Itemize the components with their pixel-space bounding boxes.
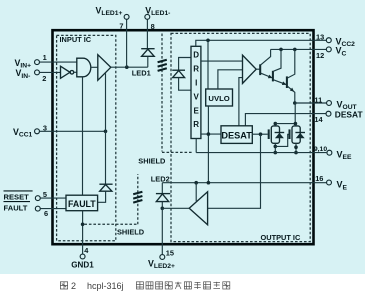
- svg-text:SHIELD: SHIELD: [117, 228, 145, 237]
- node junction VOUT: [293, 101, 297, 105]
- wire VC rail: [271, 48, 327, 50]
- svg-text:RESET: RESET: [4, 193, 30, 202]
- pin 14 terminal DESAT: [326, 111, 331, 116]
- wire VOUT to pin11: [295, 102, 327, 104]
- svg-text:E: E: [194, 106, 200, 115]
- FAULT block: [66, 195, 98, 211]
- svg-text:INPUT IC: INPUT IC: [60, 35, 92, 44]
- buffer U1C: [98, 55, 111, 81]
- wire DRIVER bottom stub to VEE rail: [195, 139, 197, 153]
- wire M1 source lead: [274, 143, 276, 152]
- wire pin2 to inverter: [40, 71, 61, 73]
- shield hatch upper: [158, 60, 167, 71]
- wire DESAT pin rail: [245, 114, 326, 126]
- node junction shield-gnd: [81, 223, 85, 227]
- wire DESAT top stub to amp1: [239, 78, 243, 126]
- shield dashed line lower: [84, 223, 137, 225]
- svg-text:13: 13: [316, 32, 324, 41]
- wire M2 drain lead: [295, 124, 297, 126]
- photodiode PD1: [179, 58, 191, 71]
- wire pin7 down: [126, 20, 128, 68]
- wire VEE rail to pin 9,10: [196, 152, 326, 154]
- UVLO block: [206, 89, 233, 106]
- wire LED2 node to pin 15: [161, 208, 163, 254]
- svg-text:R: R: [193, 65, 199, 74]
- wire pin1 to AND gate: [40, 61, 77, 63]
- transistor Q1: [259, 64, 261, 75]
- diode D2 body of M1: [275, 132, 285, 134]
- svg-text:7: 7: [119, 22, 123, 31]
- wire DESAT output to DMOS gates: [252, 133, 267, 135]
- pin 7 terminal VLED1+: [124, 14, 129, 19]
- wire M1 drain lead: [274, 124, 276, 126]
- wire UVLO bottom down to VE node: [207, 106, 209, 183]
- svg-text:6: 6: [44, 209, 48, 218]
- svg-text:D: D: [193, 51, 199, 60]
- wire UVLO output to amp1: [218, 70, 243, 89]
- wire VCC1: [40, 130, 106, 132]
- svg-text:11: 11: [314, 95, 322, 104]
- pin 9,10 terminal VEE: [327, 150, 332, 155]
- svg-text:12: 12: [316, 51, 324, 60]
- diode D1 above FAULT: [99, 183, 112, 185]
- wire VCC2 down to UVLO top: [207, 40, 209, 89]
- transistor M2 DMOS: [288, 129, 290, 139]
- wire DRIVER to DESAT: [201, 133, 221, 135]
- wire inverter to AND: [74, 71, 77, 73]
- svg-text:LED1: LED1: [132, 69, 151, 78]
- transistor M1 DMOS: [268, 129, 270, 139]
- shield hatch lower: [133, 192, 142, 203]
- pin 13 terminal VCC2: [326, 38, 331, 43]
- svg-text:UVLO: UVLO: [208, 94, 229, 103]
- svg-text:2: 2: [71, 281, 76, 291]
- pin 16 terminal VE: [327, 180, 332, 185]
- node junction driver-desat-uvlo: [207, 132, 211, 136]
- wire drain tie bar: [275, 123, 296, 125]
- svg-text:hcpl-316j: hcpl-316j: [87, 281, 124, 291]
- inverter U1A: [61, 66, 71, 78]
- svg-text:9,10: 9,10: [314, 146, 327, 153]
- pin 2 terminal VIN-: [35, 70, 40, 75]
- op-amp A1: [243, 55, 257, 83]
- caption figure 2: [60, 282, 67, 289]
- svg-text:8: 8: [151, 22, 155, 31]
- pin 4 terminal GND1: [80, 254, 85, 259]
- DRIVER block: [191, 46, 201, 138]
- pin 12 terminal VC: [326, 47, 331, 52]
- svg-text:SHIELD: SHIELD: [138, 157, 166, 166]
- wire DRIVER output to amp1: [201, 60, 243, 62]
- svg-text:15: 15: [166, 249, 174, 258]
- wire amp2 output to LED2: [162, 207, 189, 209]
- transistor Q2: [272, 71, 274, 82]
- svg-text:FAULT: FAULT: [4, 203, 28, 212]
- pin 3 terminal VCC1: [35, 129, 40, 134]
- svg-text:R: R: [193, 120, 199, 129]
- node junction VCC1: [104, 130, 108, 134]
- wire M2 gate link: [275, 134, 288, 146]
- op-amp A2: [189, 192, 207, 225]
- LED2: [161, 183, 163, 194]
- outer package box: [53, 30, 314, 244]
- svg-text:GND1: GND1: [71, 261, 94, 270]
- svg-text:1: 1: [43, 53, 47, 62]
- svg-text:OUTPUT IC: OUTPUT IC: [261, 233, 301, 242]
- svg-text:16: 16: [315, 174, 323, 183]
- node junction gate net: [259, 132, 263, 136]
- node junction Q3 collector: [293, 48, 297, 52]
- wire amp1 to Q1 base: [256, 68, 260, 70]
- wire buffer dropper to fault diode: [105, 73, 107, 184]
- wire pin6 to FAULT box: [40, 208, 66, 210]
- wire M2 source lead: [295, 143, 297, 152]
- node junction amp2 top feed: [194, 181, 198, 185]
- wire pin5 to FAULT box: [40, 197, 66, 199]
- wire pin8 down to LED1 cathode: [146, 19, 148, 48]
- svg-text:LED2: LED2: [151, 174, 170, 183]
- svg-text:FAULT: FAULT: [68, 199, 96, 209]
- svg-text:DESAT: DESAT: [221, 131, 252, 141]
- shield dashed line upper: [161, 34, 163, 152]
- wire VE rail from LED2 to pin 16: [162, 182, 326, 184]
- transistor Q3: [286, 76, 288, 88]
- svg-text:I: I: [195, 79, 197, 88]
- node junction uvlo net VE: [207, 181, 211, 185]
- node junction Q2 collector: [279, 48, 283, 52]
- pin 5 terminal RESET: [35, 196, 40, 201]
- wire buffer output to LED1 anode: [111, 66, 148, 68]
- wire amp2 top input: [195, 183, 197, 202]
- wire AND gate dropper to FAULT: [82, 77, 84, 195]
- wire VOUT down to DMOS drains: [294, 103, 296, 124]
- wire AND to buffer: [91, 66, 98, 68]
- svg-text:V: V: [194, 92, 200, 101]
- svg-text:14: 14: [314, 115, 323, 124]
- wire FAULT box to GND1: [82, 211, 84, 254]
- INPUT IC dashed box: [57, 35, 116, 240]
- OUTPUT IC dashed box: [171, 33, 310, 241]
- svg-text:2: 2: [42, 74, 46, 83]
- node junction VCC2/UVLO: [206, 39, 210, 43]
- AND gate U1B: [77, 58, 91, 77]
- node junction pin7 wire: [125, 65, 129, 69]
- diode D3 body of M2: [295, 132, 305, 134]
- DESAT block: [221, 126, 252, 144]
- wire gate net down to amp2 input: [208, 134, 261, 208]
- pin 15 terminal VLED2+: [160, 255, 165, 260]
- wire D1 anode to FAULT box: [98, 191, 106, 202]
- LED1: [141, 48, 154, 50]
- pin 11 terminal VOUT: [327, 101, 332, 106]
- wire VCC2 rail from DRIVER top to pin13: [196, 40, 326, 46]
- pin 1 terminal VIN+: [35, 60, 40, 65]
- pin 8 terminal VLED1-: [145, 14, 150, 19]
- pin 6 terminal FAULT: [35, 206, 40, 211]
- svg-text:DESAT: DESAT: [335, 109, 364, 119]
- node junction LED2 cathode: [161, 207, 165, 211]
